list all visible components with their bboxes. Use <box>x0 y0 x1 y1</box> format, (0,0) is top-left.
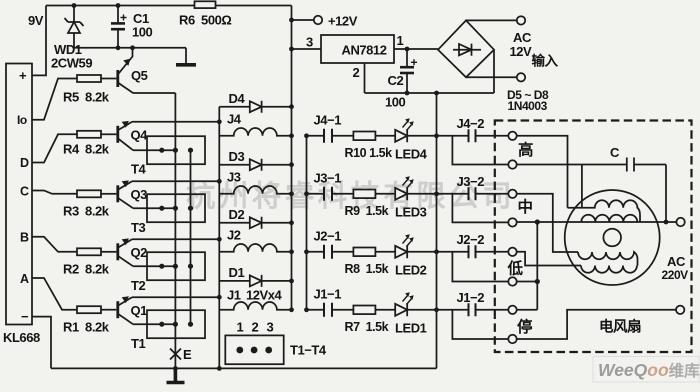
svg-text:R1 8.2k: R1 8.2k <box>63 320 110 335</box>
terminal di upper <box>508 248 516 256</box>
svg-text:C: C <box>20 185 29 199</box>
node dot rail-zener <box>72 3 77 8</box>
node dot LED2 right <box>434 249 439 254</box>
motor lower winding bottom coil <box>581 266 637 273</box>
svg-text:R8 1.5k: R8 1.5k <box>345 262 389 276</box>
svg-text:2: 2 <box>252 320 259 335</box>
terminal ting lower <box>508 335 516 343</box>
IC U1 KL668 box <box>6 64 32 325</box>
svg-text:100: 100 <box>385 95 406 110</box>
node dots T2 <box>159 264 193 269</box>
terminal AC line <box>676 218 684 226</box>
node dot C1 bottom <box>116 45 121 50</box>
svg-text:J4−2: J4−2 <box>457 116 485 131</box>
wire diode D2 row <box>219 222 291 224</box>
LED1 <box>395 292 414 316</box>
triac box T2 <box>147 252 205 280</box>
wire zener bottom rail <box>74 47 186 49</box>
wire base Q4 from R4 <box>101 133 116 135</box>
wire pin B to R2 <box>32 237 77 252</box>
wire J3-2 loop to lower terminal <box>452 194 508 223</box>
resistor R9 <box>353 190 375 199</box>
svg-text:J1: J1 <box>227 288 241 303</box>
svg-text:R4 8.2k: R4 8.2k <box>63 142 110 157</box>
relay contact J2-1 <box>324 245 332 259</box>
wire Q3 collector into T3 <box>133 207 175 209</box>
svg-text:Q1: Q1 <box>131 303 148 318</box>
relay contact J3-2 <box>469 187 476 200</box>
wire capacitor right lead down <box>665 165 667 223</box>
wire Q3 emitter to D-J bus <box>132 180 219 182</box>
terminal AC bottom <box>517 73 525 81</box>
wire diode D1 row <box>219 280 291 282</box>
wire to +12V terminal <box>292 19 314 21</box>
svg-text:D1: D1 <box>229 265 245 280</box>
motor upper winding top coil <box>568 200 641 222</box>
svg-text:3: 3 <box>306 35 313 50</box>
bus contact-left vertical <box>306 136 308 310</box>
wire Q4 emitter to D-J bus <box>132 121 219 123</box>
svg-text:D2: D2 <box>229 207 245 222</box>
svg-text:2: 2 <box>353 65 360 80</box>
svg-text:3: 3 <box>267 320 274 335</box>
node dot Q3 emitter join <box>217 179 222 184</box>
svg-text:输入: 输入 <box>532 53 559 69</box>
node dot LED3 right <box>434 191 439 196</box>
svg-text:1: 1 <box>237 320 244 335</box>
wire base Q3 from R3 <box>101 193 116 195</box>
wire bridge top to AC terminal <box>466 19 517 21</box>
wire Q1 emitter to D-J bus <box>132 296 219 298</box>
wire J2-2 loop to lower terminal <box>452 252 508 282</box>
wire Q5 collector to bus E <box>133 92 175 94</box>
svg-text:100: 100 <box>132 25 153 40</box>
wire AN7812 pin1 to bridge <box>394 48 438 50</box>
node dot led-bus top <box>434 91 439 96</box>
node dots T4 <box>159 148 193 153</box>
terminal zhong lower <box>508 218 516 226</box>
terminal di lower <box>508 277 516 285</box>
svg-text:AC: AC <box>513 30 532 45</box>
wire J3-1 row <box>307 193 437 195</box>
terminal AC top <box>517 16 525 24</box>
wire to AN7812 pin 3 <box>292 48 322 50</box>
transistor Q4 <box>118 121 133 150</box>
capacitor C1 <box>111 6 127 48</box>
resistor R8 <box>353 248 375 257</box>
motor body circle <box>565 190 660 285</box>
svg-text:J3−1: J3−1 <box>314 171 342 186</box>
resistor R4 <box>77 131 101 138</box>
svg-text:R10 1.5k: R10 1.5k <box>345 146 393 160</box>
zener diode WD1 <box>65 6 84 48</box>
wire J4-2 loop to lower terminal <box>452 136 508 165</box>
node dot E on bottom rail <box>173 366 178 371</box>
relay contact J4-2 <box>469 129 476 142</box>
wire J1-1 row <box>307 309 437 311</box>
svg-text:D3: D3 <box>229 149 245 164</box>
wire gao lower to capacitor lead <box>517 165 582 208</box>
terminal gao upper <box>508 132 516 140</box>
svg-text:R5 8.2k: R5 8.2k <box>63 90 110 105</box>
relay contact J1-1 <box>324 303 332 317</box>
node dot rail-C1 <box>116 3 121 8</box>
wire gao tap into motor <box>517 136 568 208</box>
LED4 <box>395 118 414 142</box>
node dot cap to AC line <box>664 220 669 225</box>
triac box T3 <box>147 194 205 222</box>
svg-text:中: 中 <box>518 197 533 216</box>
svg-text:1N4003: 1N4003 <box>508 99 548 113</box>
svg-text:9V: 9V <box>28 13 44 28</box>
svg-text:+12V: +12V <box>328 14 358 29</box>
wire Q4 collector into T4 <box>133 149 175 151</box>
svg-text:LED3: LED3 <box>395 205 427 220</box>
node dot C2 bottom <box>405 91 410 96</box>
capacitor C fan <box>582 158 666 172</box>
svg-text:高: 高 <box>518 140 533 159</box>
wire zhong lower through motor to AC <box>517 221 677 223</box>
svg-text:T1−T4: T1−T4 <box>290 343 327 358</box>
svg-text:C2: C2 <box>388 73 404 88</box>
watermark weeqoo logo <box>593 357 700 383</box>
wire J4-1 row <box>307 135 437 137</box>
svg-text:E: E <box>183 347 192 362</box>
node dot Q2 emitter join <box>217 237 222 242</box>
transistor Q5 <box>118 48 133 93</box>
wire common vertical to ting <box>517 222 538 310</box>
wire zhong upper tap into motor <box>517 194 578 252</box>
relay coil J2 <box>219 244 291 252</box>
svg-text:R3 8.2k: R3 8.2k <box>63 204 110 219</box>
transistor Q2 <box>118 238 133 266</box>
svg-text:J2: J2 <box>227 228 241 243</box>
wire pin Io to R5 <box>32 79 77 120</box>
wire J1-2 row <box>437 309 509 311</box>
wire + pin to 9V rail <box>32 6 46 76</box>
svg-text:D: D <box>20 156 29 170</box>
ground symbol bottom <box>167 368 185 382</box>
transistor Q1 <box>118 296 133 324</box>
svg-text:J4: J4 <box>227 112 242 127</box>
bus relay-left vertical <box>218 107 220 369</box>
svg-text:R9 1.5k: R9 1.5k <box>345 204 389 218</box>
terminal +12V <box>314 16 322 24</box>
svg-text:Q4: Q4 <box>131 128 149 143</box>
regulator U2 AN7812 <box>321 35 394 63</box>
node dots T3 <box>159 206 193 211</box>
wire pin C to R3 <box>32 191 77 194</box>
svg-text:12V: 12V <box>510 44 533 59</box>
svg-text:220V: 220V <box>662 268 689 282</box>
wire base Q1 from R1 <box>101 309 116 311</box>
transistor Q3 <box>118 180 133 208</box>
diode D3 <box>250 159 262 171</box>
bus +12V vertical <box>291 6 293 310</box>
wire diode D4 row <box>219 106 291 108</box>
node dot C2 top <box>405 47 410 52</box>
relay contact J4-1 <box>324 129 332 143</box>
svg-text:T1: T1 <box>131 336 145 351</box>
wire 9V top rail left segment <box>46 5 195 7</box>
svg-text:AC: AC <box>667 254 686 269</box>
wire ting lower to AC neutral <box>517 310 676 339</box>
relay contact J3-1 <box>324 187 332 201</box>
svg-text:R2 8.2k: R2 8.2k <box>63 262 110 277</box>
svg-text:J2−2: J2−2 <box>457 232 485 247</box>
motor upper winding lower coil on AC line <box>581 215 637 222</box>
relay coil J1 <box>219 302 291 310</box>
node dot Q1 emitter join <box>217 295 222 300</box>
trigger box 1-2-3 <box>225 335 283 364</box>
resistor R3 <box>77 190 101 197</box>
dots in trigger box <box>236 347 272 354</box>
motor rotor circle <box>603 229 621 247</box>
capacitor C2 <box>400 49 417 93</box>
wire J4-2 row <box>437 135 509 137</box>
diode D4 <box>250 101 262 113</box>
node dot +12V terminal branch <box>289 18 294 23</box>
svg-text:J4−1: J4−1 <box>314 113 342 128</box>
svg-text:AN7812: AN7812 <box>342 43 387 58</box>
svg-text:LED1: LED1 <box>395 321 427 336</box>
wire J3-2 row <box>437 193 509 195</box>
wire di upper tap into motor <box>517 252 581 266</box>
bus T gate line <box>190 150 192 324</box>
node dot LED1 right <box>434 307 439 312</box>
svg-text:J1−2: J1−2 <box>457 290 485 305</box>
LED3 <box>395 176 414 200</box>
wire AN7812 pin2 down <box>364 63 366 93</box>
svg-text:电风扇: 电风扇 <box>599 318 641 336</box>
wire bottom ground rail <box>51 367 437 369</box>
wire 9V top rail right segment to +12V bus <box>216 5 292 7</box>
diode D2 <box>250 217 262 229</box>
svg-text:Io: Io <box>17 113 27 127</box>
node dot zhong tap <box>535 219 540 224</box>
wire bridge right vertex down to return row <box>493 50 495 93</box>
wire di lower to common vertical <box>517 281 538 283</box>
wire J1-2 loop to lower terminal <box>452 310 508 339</box>
svg-text:WeeQoo维库: WeeQoo维库 <box>598 360 700 380</box>
node dots on contact bus at J rows <box>304 133 309 312</box>
resistor R2 <box>77 248 101 255</box>
bridge inner diode <box>453 44 481 56</box>
wire bridge bottom to AC terminal <box>466 76 517 78</box>
wire diode D3 row <box>219 164 291 166</box>
LED2 <box>395 234 414 258</box>
node dot Q4 emitter join <box>217 119 222 124</box>
relay coil J3 <box>219 186 291 194</box>
wire Q2 collector into T2 <box>133 265 175 267</box>
triac box T1 <box>147 310 205 338</box>
ground symbol top <box>176 63 196 67</box>
svg-text:J3−2: J3−2 <box>457 174 485 189</box>
svg-text:J1−1: J1−1 <box>314 287 342 302</box>
node dot di lower join <box>535 279 540 284</box>
svg-text:T2: T2 <box>131 278 145 293</box>
svg-text:1: 1 <box>397 33 404 48</box>
relay contact J1-2 <box>469 303 476 316</box>
triac box T4 <box>147 136 205 164</box>
wire ground return row <box>365 92 495 94</box>
resistor R1 <box>77 306 101 313</box>
node dot relay common on bottom rail <box>217 366 222 371</box>
fan dashed enclosure <box>495 121 692 353</box>
node dot AN7812 pin3 branch <box>289 47 294 52</box>
svg-text:Q3: Q3 <box>131 187 148 202</box>
terminal gao lower <box>508 160 516 168</box>
svg-text:停: 停 <box>517 317 533 336</box>
svg-text:R7 1.5k: R7 1.5k <box>345 320 389 334</box>
wire pin A to R1 <box>32 278 77 310</box>
resistor R6 <box>195 1 216 8</box>
wire Q2 emitter to D-J bus <box>132 238 219 240</box>
bus LED right vertical <box>436 93 438 368</box>
svg-text:R6 500Ω: R6 500Ω <box>179 13 231 28</box>
node dots T1 <box>159 322 193 327</box>
svg-text:D4: D4 <box>229 91 246 106</box>
wire J2-1 row <box>307 251 437 253</box>
terminal ting upper <box>508 306 516 314</box>
diode D1 <box>250 275 262 287</box>
node dot Q5 emitter junction <box>130 45 135 50</box>
svg-text:KL668: KL668 <box>3 330 40 345</box>
svg-text:A: A <box>20 272 29 286</box>
resistor R5 <box>77 75 101 82</box>
motor lower winding top coil <box>578 252 638 266</box>
terminal AC neutral <box>676 306 684 314</box>
svg-text:Q5: Q5 <box>131 68 148 83</box>
relay coil J4 <box>219 128 291 136</box>
svg-text:J2−1: J2−1 <box>314 229 342 244</box>
bridge rectifier D5-D8 diamond <box>438 20 494 77</box>
svg-text:T4: T4 <box>131 162 146 177</box>
wire pin D to R4 <box>32 134 77 162</box>
bus E collector line from Q5 <box>174 93 176 368</box>
relay contact J2-2 <box>469 245 476 258</box>
wire base Q5 from R5 <box>101 78 116 80</box>
svg-text:J3: J3 <box>227 170 241 185</box>
svg-text:LED2: LED2 <box>395 263 427 278</box>
svg-text:LED4: LED4 <box>395 147 428 162</box>
node dots on +12V bus at D and J rows <box>289 104 294 312</box>
svg-text:T3: T3 <box>131 220 145 235</box>
svg-text:−: − <box>21 309 29 324</box>
wire pin minus to bottom rail <box>32 317 51 369</box>
svg-text:Q2: Q2 <box>131 245 148 260</box>
wire Q1 collector into T1 <box>133 323 175 325</box>
svg-text:B: B <box>20 231 29 245</box>
node E crossing symbol <box>170 349 181 360</box>
svg-text:12Vx4: 12Vx4 <box>246 288 283 303</box>
resistor R7 <box>353 306 375 315</box>
svg-text:C: C <box>610 145 620 160</box>
wire J2-2 row <box>437 251 509 253</box>
svg-text:2CW59: 2CW59 <box>51 56 92 71</box>
terminal zhong upper <box>508 190 516 198</box>
wire stub to ground near C1 <box>185 48 187 64</box>
wire base Q2 from R2 <box>101 251 116 253</box>
svg-text:低: 低 <box>507 259 524 278</box>
node dot LED4 right <box>434 133 439 138</box>
svg-text:+: + <box>19 68 27 83</box>
resistor R10 <box>353 132 375 141</box>
